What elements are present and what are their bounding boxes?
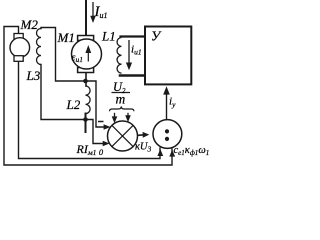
svg-text:L1: L1 <box>101 29 116 44</box>
svg-text:m: m <box>116 92 126 107</box>
svg-text:L2: L2 <box>66 97 81 112</box>
svg-text:L3: L3 <box>26 68 41 83</box>
svg-text:М1: М1 <box>57 30 75 45</box>
svg-text:εи1: εи1 <box>72 53 83 64</box>
svg-text:М2: М2 <box>20 17 39 32</box>
